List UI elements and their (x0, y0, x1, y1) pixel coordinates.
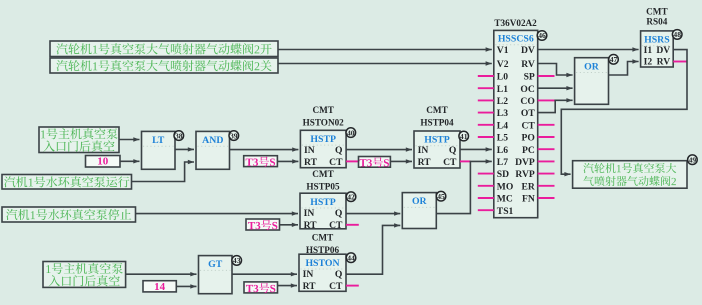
wire: LT -> AND.in1 (175, 148, 194, 150)
svg-text:CT: CT (521, 120, 535, 131)
svg-text:45: 45 (437, 192, 445, 201)
svg-text:CT: CT (329, 157, 343, 168)
gate OR 47 (575, 58, 609, 105)
svg-text:CMT: CMT (312, 105, 333, 115)
svg-text:L0: L0 (497, 72, 508, 83)
svg-text:V1: V1 (497, 45, 509, 56)
wire: HSTP04.Q -> HSSCS6.L6 (460, 148, 492, 150)
svg-text:LT: LT (152, 135, 165, 146)
latch block U48 CMT RS04 (HSRS) (641, 7, 674, 68)
svg-text:41: 41 (460, 132, 468, 141)
svg-text:OR: OR (412, 196, 428, 207)
comparator LT 38 (142, 131, 176, 169)
wire: T3号S -> HSTP05.RT (280, 224, 299, 226)
svg-text:HSSCS6: HSSCS6 (498, 34, 534, 45)
svg-text:CMT: CMT (646, 7, 667, 17)
timer constant box T3号S (to HSTP05.RT) (246, 219, 280, 230)
input box: 1号主机真空泵入口门后真空 (upper) (39, 127, 119, 153)
function block U41 CMT HSTP04 (HSTP) (414, 105, 460, 168)
svg-text:CMT: CMT (426, 105, 447, 115)
svg-text:MC: MC (497, 194, 513, 205)
svg-text:MO: MO (497, 181, 514, 192)
wire: 10 -> LT.in2 (120, 160, 140, 162)
svg-text:CT: CT (443, 157, 457, 168)
wire: 14 -> GT.in2 (176, 285, 196, 287)
svg-text:L1: L1 (497, 84, 508, 95)
svg-text:HSTP06: HSTP06 (306, 245, 340, 255)
svg-text:39: 39 (230, 131, 238, 140)
svg-text:DV: DV (656, 45, 670, 56)
svg-text:OR: OR (584, 61, 600, 72)
svg-text:Q: Q (335, 269, 343, 280)
svg-text:ER: ER (521, 181, 535, 192)
svg-text:I1: I1 (644, 45, 653, 56)
input box: 汽轮机1号真空泵大气喷射器气动蝶阀2开 (50, 41, 278, 57)
stub: HSTON02.CT (346, 160, 358, 162)
svg-text:43: 43 (233, 256, 241, 265)
stub: HSTP04.CT (460, 160, 470, 162)
wire: HSSCS6.DV -> HSRS.I1 (538, 49, 639, 51)
svg-text:PC: PC (522, 145, 535, 156)
svg-text:RT: RT (418, 157, 432, 168)
gate AND 39 (196, 131, 230, 169)
input box: 1号主机真空泵入口门后真空 (lower) (43, 262, 126, 288)
svg-text:47: 47 (610, 55, 618, 64)
svg-text:HSTP05: HSTP05 (306, 181, 340, 191)
svg-text:GT: GT (208, 259, 223, 270)
wire: 蝶阀2关 -> HSSCS6.V2 (278, 63, 492, 65)
timer constant box T3号S (to HSTP04.RT) (359, 157, 391, 168)
svg-text:L2: L2 (497, 96, 508, 107)
wire: HSSCS6.OT -> OR47.in3 (538, 100, 573, 112)
wire: HSRS.DV -> output box 49 (561, 50, 687, 175)
svg-text:V2: V2 (497, 59, 509, 70)
wire: 停止 -> HSTP05.IN (136, 213, 299, 215)
svg-text:FN: FN (522, 194, 535, 205)
svg-text:Q: Q (449, 145, 457, 156)
stub: HSTP05.CT (346, 224, 359, 226)
svg-text:RT: RT (303, 281, 317, 292)
input box: 汽机1号水环真空泵运行 (2, 175, 132, 190)
wire: OR47 -> HSRS.I2 (609, 62, 639, 76)
svg-text:CMT: CMT (312, 233, 333, 243)
svg-text:TS1: TS1 (497, 206, 514, 217)
svg-text:DVP: DVP (515, 157, 535, 168)
gate OR 45 (402, 193, 436, 229)
svg-text:L3: L3 (497, 108, 508, 119)
svg-text:SP: SP (524, 72, 535, 83)
svg-text:CO: CO (520, 96, 534, 107)
wire: HSSCS6.OC -> OR47.in2 (538, 87, 573, 89)
wire: HSTON02.Q -> HSTP04.IN (346, 149, 412, 151)
svg-text:49: 49 (689, 155, 697, 164)
svg-text:RT: RT (304, 220, 318, 231)
svg-text:RV: RV (521, 59, 535, 70)
svg-text:T36V02A2: T36V02A2 (494, 18, 537, 28)
constant box 14 (143, 281, 176, 293)
svg-text:40: 40 (347, 128, 355, 137)
wire: T3号S -> HSTON02.RT (277, 160, 298, 162)
svg-text:Q: Q (335, 208, 343, 219)
svg-text:42: 42 (347, 192, 355, 201)
unconnected output stubs SP,CO,CT,PO,PC,DVP,RVP,ER,FN (538, 75, 555, 77)
svg-text:HSTP: HSTP (310, 134, 336, 145)
wire: T3号S -> HSTP04.RT (390, 160, 412, 162)
svg-text:PO: PO (521, 133, 534, 144)
svg-text:RV: RV (657, 57, 671, 68)
svg-text:Q: Q (335, 145, 343, 156)
svg-text:IN: IN (304, 145, 315, 156)
device control block U46 T36V02A2 (HSSCS6) (494, 18, 538, 218)
function block U40 CMT HSTON02 (HSTP) (300, 105, 346, 168)
svg-text:L7: L7 (497, 157, 508, 168)
svg-text:14: 14 (154, 281, 166, 293)
svg-text:CT: CT (329, 281, 343, 292)
svg-text:OT: OT (521, 108, 535, 119)
input box: 汽机1号水环真空泵停止 (2, 207, 136, 222)
wire: HSSCS6.RV -> OR47.in1 (538, 64, 573, 76)
constant box 10 (86, 156, 121, 168)
wire: OR45 -> HSSCS6.L7 (436, 161, 492, 213)
svg-text:L5: L5 (497, 133, 508, 144)
svg-text:HSTP: HSTP (424, 135, 450, 146)
stub: HSTP06.CT (346, 285, 359, 287)
function block U42 CMT HSTP05 (HSTP) (300, 169, 346, 231)
svg-text:46: 46 (538, 31, 546, 40)
wire: 运行 -> AND.in2 (132, 162, 195, 182)
svg-text:L6: L6 (497, 145, 508, 156)
svg-text:CMT: CMT (312, 169, 333, 179)
wire: T3号S -> HSTP06.RT (278, 285, 298, 287)
wire: 真空 -> GT.in1 (126, 273, 197, 275)
wire: HSTP05.Q -> OR45.in1 (346, 213, 400, 215)
comparator GT 43 (199, 256, 233, 294)
svg-text:HSTP04: HSTP04 (420, 117, 454, 127)
svg-text:IN: IN (303, 269, 314, 280)
svg-text:RS04: RS04 (646, 17, 667, 27)
svg-text:38: 38 (175, 131, 183, 140)
svg-text:IN: IN (418, 145, 429, 156)
svg-text:I2: I2 (644, 57, 653, 68)
input box: 汽轮机1号真空泵大气喷射器气动蝶阀2关 (50, 58, 278, 73)
svg-text:44: 44 (347, 253, 355, 262)
wire: HSTP06.Q -> OR45.in2 (346, 225, 400, 274)
function block U44 CMT HSTP06 (HSTON) (299, 233, 346, 292)
svg-text:AND: AND (202, 135, 223, 146)
svg-text:OC: OC (520, 84, 534, 95)
svg-text:HSTON02: HSTON02 (303, 117, 345, 127)
wire: GT -> HSTP06.IN (232, 273, 297, 275)
svg-text:IN: IN (304, 208, 315, 219)
svg-text:RVP: RVP (515, 169, 535, 180)
unconnected input stubs L0-L5,SD,MO,MC,TS1 (478, 75, 494, 77)
wire: 真空 -> LT.in1 (119, 139, 140, 141)
stub: HSRS.RV (673, 61, 687, 63)
svg-text:48: 48 (673, 30, 681, 39)
svg-text:HSTP: HSTP (310, 197, 336, 208)
wire: 蝶阀2开 -> HSSCS6.V1 (278, 49, 492, 51)
svg-text:HSTON: HSTON (305, 258, 339, 269)
svg-text:10: 10 (97, 156, 109, 168)
svg-text:DV: DV (521, 45, 535, 56)
wire: AND -> HSTON02.IN (230, 149, 299, 151)
svg-text:SD: SD (497, 169, 509, 180)
timer constant box T3号S (to HSTP06.RT) (244, 282, 278, 293)
svg-text:CT: CT (329, 220, 343, 231)
timer constant box T3号S (to HSTON02.RT) (244, 156, 278, 167)
svg-text:RT: RT (304, 157, 318, 168)
svg-text:L4: L4 (497, 120, 508, 131)
output box 49: 汽轮机1号真空泵大气喷射器气动蝶阀2 (573, 161, 687, 189)
